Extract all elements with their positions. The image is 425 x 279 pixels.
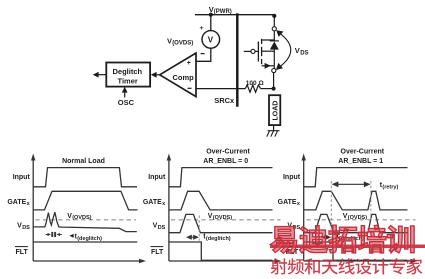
node V(PWR) label — [209, 5, 232, 15]
svg-text:x: x — [297, 201, 301, 207]
diagram1 horizontal axis — [33, 260, 141, 262]
transistor Q1 drain stub — [262, 31, 275, 40]
svg-text:V: V — [208, 35, 214, 44]
svg-text:DS: DS — [22, 225, 30, 231]
svg-text:x: x — [27, 201, 31, 207]
resistor 100ohm — [245, 85, 260, 92]
diagram3 retry dashed ticks — [330, 181, 332, 241]
diagram2 GATEx waveform — [169, 191, 273, 210]
svg-text:Normal Load: Normal Load — [62, 158, 105, 165]
transistor Q1 body stub — [262, 50, 275, 52]
junction load node — [272, 87, 276, 91]
svg-text:Input: Input — [13, 174, 31, 181]
svg-text:+: + — [200, 25, 204, 32]
transistor Q1 channel bar — [261, 39, 263, 44]
transistor Q1 drain terminal — [272, 27, 276, 31]
junction drain-rail — [272, 14, 276, 18]
diagram2 deglitch arrows — [190, 236, 196, 238]
diagram3 FLT waveform — [304, 242, 408, 260]
wire source to load node — [273, 73, 275, 89]
svg-text:(retry): (retry) — [382, 184, 398, 190]
diagram2 VDS waveform — [169, 214, 273, 232]
svg-text:Over-Current: Over-Current — [206, 149, 250, 156]
svg-text:FLT: FLT — [151, 249, 164, 256]
wire drain to rail — [273, 15, 275, 27]
svg-text:AR_ENBL = 0: AR_ENBL = 0 — [203, 158, 248, 165]
watermark char 训 — [387, 226, 414, 253]
svg-text:(OVDS): (OVDS) — [348, 215, 367, 221]
diagram3 horizontal axis — [304, 260, 413, 262]
svg-text:FLT: FLT — [15, 249, 28, 256]
diagram2 threshold dashed line — [171, 219, 281, 221]
transistor Q1 source terminal — [273, 66, 275, 69]
svg-text:Timer: Timer — [118, 77, 138, 86]
watermark char 射 — [271, 258, 287, 274]
wire top rail — [195, 14, 274, 16]
svg-text:OSC: OSC — [118, 98, 135, 107]
diagram2 label t(deglitch) — [203, 233, 231, 242]
watermark char 专 — [389, 258, 404, 274]
diagram1 threshold dashed line — [36, 219, 137, 221]
diagram1 label V(OVDS) — [67, 213, 91, 221]
svg-text:DS: DS — [300, 51, 308, 57]
voltage source V1 — [202, 31, 220, 49]
transistor Q1 source stub with arrow — [262, 65, 275, 67]
svg-text:GATE: GATE — [7, 199, 26, 206]
svg-text:(OVDS): (OVDS) — [172, 41, 193, 47]
svg-text:(deglitch): (deglitch) — [77, 236, 102, 242]
op-amp comparator Comp — [160, 53, 196, 97]
transistor Q1 gate bar — [257, 42, 259, 62]
watermark char 计 — [372, 258, 388, 274]
diagram2 label V(OVDS) — [208, 213, 232, 221]
ground — [267, 131, 280, 137]
comp minus pin — [188, 87, 192, 89]
diagram3 label V(OVDS) — [343, 213, 367, 221]
svg-text:(OVDS): (OVDS) — [213, 215, 232, 221]
diagram3 deglitch arrows — [324, 236, 328, 238]
watermark char 和 — [304, 258, 319, 274]
diagram2 FLT waveform — [169, 242, 273, 260]
net SRCx rail — [236, 13, 239, 107]
diagram1 VDS waveform — [33, 212, 137, 231]
diagram1 label GATEx — [7, 199, 30, 207]
diagram3 GATEx waveform — [304, 191, 408, 210]
diagram3 label GATEx — [278, 199, 301, 207]
diagram2 label VDS — [153, 222, 166, 231]
diagram3 threshold dashed line — [307, 219, 416, 221]
diagram1 deglitch tick marks and arrows — [51, 232, 53, 237]
diagram2 deglitch dashed tick — [198, 216, 200, 241]
svg-text:(OVDS): (OVDS) — [72, 215, 91, 221]
svg-text:Deglitch: Deglitch — [113, 67, 143, 76]
diagram3 label t(deglitch) — [337, 233, 365, 242]
svg-text:Comp: Comp — [173, 73, 195, 82]
watermark char 拓 — [329, 225, 357, 253]
diagram1 less-than arrow + t(deglitch) — [69, 234, 73, 238]
wire to source top — [210, 15, 212, 31]
svg-text:+: + — [187, 60, 191, 67]
label V(OVDS) — [167, 37, 193, 47]
diagram3 vertical axis — [303, 158, 305, 261]
diagram3 Input waveform — [304, 168, 408, 187]
svg-text:GATE: GATE — [278, 199, 297, 206]
svg-text:SRCx: SRCx — [214, 96, 235, 105]
svg-text:Input: Input — [283, 174, 301, 181]
block Deglitch Timer — [106, 63, 150, 87]
diagram2 horizontal axis — [169, 260, 277, 262]
VDS measurement arc — [278, 32, 291, 68]
watermark char 设 — [355, 259, 371, 275]
diagram2 label GATEx — [143, 199, 166, 207]
diagram1 Input waveform — [33, 168, 137, 187]
transistor Q1 gate wire — [244, 50, 251, 52]
wire comp output arrow into Deglitch Timer — [155, 74, 160, 76]
svg-text:GATE: GATE — [143, 199, 162, 206]
watermark char 家 — [406, 258, 422, 274]
diagram1 label VDS — [17, 222, 30, 231]
wire load to ground — [273, 125, 275, 131]
watermark char 易 — [270, 227, 296, 254]
diagram3 label VDS — [287, 222, 300, 231]
diagram3 VDS waveform — [304, 214, 408, 232]
svg-text:100 Ω: 100 Ω — [246, 80, 264, 87]
svg-text:AR_ENBL = 1: AR_ENBL = 1 — [338, 158, 383, 165]
svg-text:Input: Input — [148, 174, 166, 181]
diagram3 t(retry) arrow — [335, 183, 367, 185]
svg-text:LOAD: LOAD — [273, 101, 280, 121]
svg-text:Over-Current: Over-Current — [341, 149, 385, 156]
wire source bottom to comp plus — [196, 48, 211, 61]
wire deglitch output arrow left — [97, 74, 106, 76]
svg-text:DS: DS — [158, 225, 166, 231]
load box — [269, 95, 280, 125]
diagram1 GATEx waveform — [33, 191, 137, 210]
diagram2 vertical axis — [168, 158, 170, 261]
diagram3 label t(retry) — [380, 182, 399, 191]
svg-text:(deglitch): (deglitch) — [206, 236, 231, 242]
diagram1 FLT waveform — [33, 241, 137, 243]
watermark char 线 — [339, 258, 355, 274]
body diode D1 — [270, 40, 279, 42]
watermark char 培 — [358, 225, 386, 253]
diagram1 vertical axis — [32, 158, 34, 261]
voltage source V1 minus sign — [201, 53, 205, 55]
svg-text:x: x — [162, 201, 166, 207]
label VDS — [295, 46, 309, 57]
diagram2 Input waveform — [169, 168, 273, 187]
svg-text:V: V — [295, 46, 300, 55]
junction V(PWR) — [209, 13, 213, 17]
wire comp minus to load node — [196, 88, 245, 90]
watermark strike line — [270, 245, 425, 249]
watermark char 天 — [322, 260, 338, 275]
OSC input arrow — [124, 90, 126, 98]
watermark char 频 — [288, 258, 304, 274]
watermark char 迪 — [300, 226, 328, 253]
